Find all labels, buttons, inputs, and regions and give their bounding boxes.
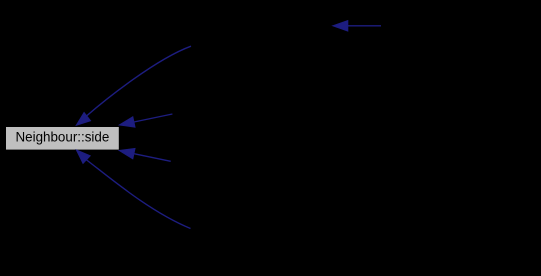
edge arrow from bottom caller node (curved) bbox=[86, 160, 191, 229]
arrowhead of top curved edge bbox=[76, 113, 90, 126]
arrowhead of bottom curved edge bbox=[76, 150, 90, 163]
edge arrow from lower-right caller node (straight) bbox=[134, 154, 171, 162]
edge arrow from top caller node (curved) bbox=[87, 46, 192, 116]
edge arrow from upper-right caller node (straight) bbox=[134, 114, 173, 122]
svg-text:Neighbour::side: Neighbour::side bbox=[16, 129, 110, 144]
edge arrow between hidden top-right nodes (horizontal) bbox=[348, 25, 381, 27]
node Neighbour::side (central node box) bbox=[6, 127, 119, 150]
arrowhead of upper-right edge bbox=[119, 117, 135, 127]
arrowhead of lower-right edge bbox=[119, 149, 135, 159]
arrowhead of horizontal edge bbox=[333, 21, 348, 32]
